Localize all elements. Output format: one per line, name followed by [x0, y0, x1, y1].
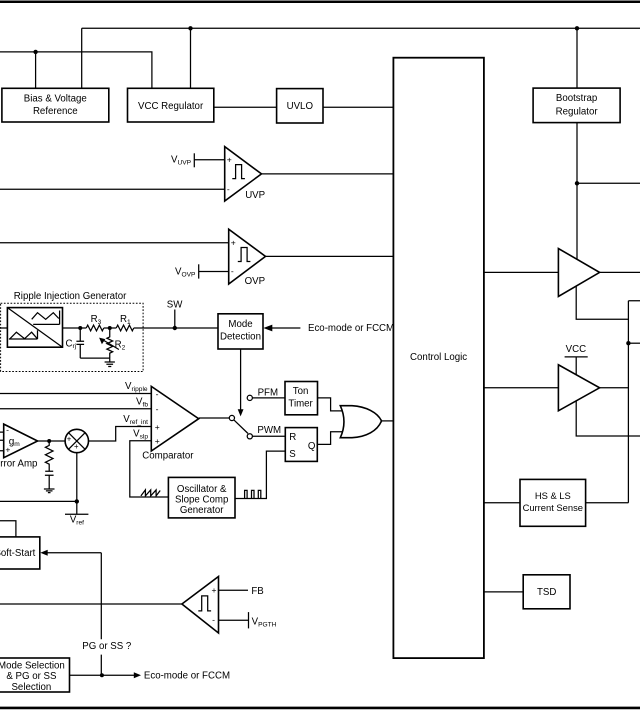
summing junction [65, 429, 88, 452]
svg-text:-: - [156, 389, 159, 399]
svg-text:FB: FB [251, 586, 263, 597]
switch contact PWM [247, 425, 281, 439]
wire soft-start input from left edge [0, 521, 16, 537]
svg-text:Control Logic: Control Logic [410, 352, 467, 363]
wire LS driver return [576, 401, 640, 436]
wire control logic to current sense [484, 502, 520, 504]
svg-text:+: + [155, 436, 160, 446]
wire error amp output to summing node [38, 440, 65, 442]
wire OVP plus input from left edge [0, 242, 229, 244]
svg-text:+: + [67, 434, 72, 443]
wire OVP output to control logic [266, 255, 394, 257]
wire input to ripple block from left edge [0, 327, 7, 329]
node junction Vref net [75, 499, 79, 503]
label VUVP [171, 155, 192, 167]
wire mode selection output to Eco-mode arrow [70, 671, 231, 682]
block TSD [523, 575, 570, 609]
reference Vref bar [65, 514, 88, 526]
svg-text:Regulator: Regulator [556, 106, 599, 117]
wire comparator output to switch pivot [199, 417, 230, 419]
svg-text:PG or SS ?: PG or SS ? [82, 641, 132, 652]
node junction Crj-R3 [78, 326, 82, 330]
svg-text:Eco-mode or FCCM: Eco-mode or FCCM [144, 671, 230, 682]
wire error amp input stubs from left edge [0, 432, 4, 451]
wire Vslp from oscillator to comparator [130, 441, 169, 497]
resistor compensation [45, 441, 53, 471]
wire bootstrap regulator to HS driver supply [576, 123, 578, 260]
wire Eco-mode input with arrow into mode detection [263, 323, 394, 334]
capacitor Crj [66, 328, 85, 358]
latch U2 RS flip-flop [285, 428, 317, 462]
wire UVP minus input from left edge [0, 188, 225, 190]
wire R1 to SW and mode detection [134, 327, 218, 329]
node junction PG-SS and eco net [100, 673, 104, 677]
label Ripple Injection Generator [14, 291, 127, 302]
resistor R1 [116, 314, 134, 331]
top border [0, 0, 640, 3]
wire Ton timer output to OR gate [318, 398, 343, 411]
buffer HS gate driver [558, 249, 599, 297]
wire summing node to Vref [76, 453, 78, 515]
wire control logic to HS driver input [484, 271, 559, 273]
comparator UVP [225, 147, 265, 201]
label PG or SS ? [82, 641, 132, 652]
label VOVP [175, 266, 196, 278]
node junction R3-R2-R1 [108, 326, 112, 330]
svg-text:Selection: Selection [11, 682, 51, 693]
comparator main PWM comparator [142, 386, 198, 461]
svg-text:Ripple Injection Generator: Ripple Injection Generator [14, 291, 127, 302]
wire HO output to right edge [600, 271, 640, 273]
wire current sense to bus [586, 502, 629, 504]
op-amp Error Amp gm [0, 424, 38, 469]
wire UVLO to control logic [323, 106, 393, 108]
svg-text:+: + [74, 442, 79, 451]
wire OR gate output to control logic [382, 420, 394, 422]
block VCC Regulator [128, 88, 214, 122]
wire PG comparator output to left edge [0, 603, 182, 605]
ground compensation [44, 489, 55, 493]
wire R3 to R1 [104, 327, 117, 329]
node junction bootstrap HB [575, 181, 579, 185]
source tick VPGTH [248, 612, 250, 628]
svg-text:-: - [6, 425, 9, 435]
svg-text:Comparator: Comparator [142, 450, 194, 461]
wire VPGTH to PG comparator minus [219, 619, 249, 621]
wire latch Q output to OR gate [317, 432, 343, 445]
svg-text:SW: SW [167, 300, 183, 311]
block UVLO [277, 89, 323, 123]
wire VOVP to OVP minus input [199, 271, 229, 273]
bottom border [0, 707, 640, 710]
svg-text:Soft-Start: Soft-Start [0, 548, 36, 559]
svg-text:Detection: Detection [220, 331, 261, 342]
wire VUVP to UVP plus input [194, 159, 224, 161]
comparator PG (left facing) [182, 577, 219, 634]
block Mode Detection [218, 314, 263, 349]
svg-text:-: - [212, 615, 215, 625]
label Vripple [125, 381, 148, 393]
svg-text:-: - [156, 404, 159, 414]
svg-text:-: - [227, 184, 230, 194]
svg-text:PWM: PWM [257, 425, 281, 436]
node junction VIN-VCCreg [188, 26, 192, 30]
wire Vref net to left edge [0, 500, 77, 502]
block Control Logic U1 [393, 58, 484, 658]
svg-text:VCC: VCC [566, 344, 586, 355]
svg-text:Ton: Ton [293, 386, 309, 397]
wire Vripple input from left edge [0, 393, 151, 395]
svg-text:Error Amp: Error Amp [0, 459, 37, 470]
wire FB input to PG comparator plus [219, 586, 264, 597]
node junction SW [173, 326, 177, 330]
wire ripple block output [63, 327, 87, 329]
resistor R2 variable [99, 328, 126, 358]
block Bootstrap Regulator [533, 88, 620, 123]
block Bias & Voltage Reference [2, 88, 109, 122]
svg-text:-: - [231, 266, 234, 276]
wire PG-SS select to soft-start with arrow [40, 550, 101, 556]
wire PG-SS vertical net [100, 553, 102, 676]
svg-text:Current Sense: Current Sense [523, 502, 583, 513]
block Oscillator and Slope Comp Generator [168, 477, 235, 518]
svg-text:VCC Regulator: VCC Regulator [138, 101, 204, 112]
svg-text:PFM: PFM [258, 387, 278, 398]
wire oscillator pulse output to latch S input [235, 451, 285, 498]
svg-text:Mode: Mode [228, 319, 252, 330]
svg-text:UVLO: UVLO [287, 101, 314, 112]
switch pivot circle [229, 415, 234, 420]
svg-text:S: S [289, 449, 296, 460]
label VPGTH [252, 616, 277, 628]
wire Vref_int from summing node to comparator [89, 427, 152, 442]
supply VCC at LS driver [565, 344, 588, 376]
switch lever toward PWM [234, 420, 248, 434]
node junction bus stub [626, 341, 630, 345]
resistor R3 [86, 314, 103, 331]
svg-text:Slope Comp: Slope Comp [175, 494, 228, 505]
label Vfb [136, 396, 148, 408]
source tick VUVP [193, 153, 195, 167]
wire UVP output to control logic [262, 173, 394, 175]
wire control logic to TSD [484, 591, 523, 593]
svg-text:+: + [227, 155, 232, 165]
gate OR1 [340, 406, 381, 438]
buffer LS gate driver [558, 365, 599, 411]
switch contact PFM [247, 387, 278, 400]
wire Vfb input from left edge [0, 408, 151, 410]
svg-text:Reference: Reference [33, 106, 78, 117]
svg-text:Bias & Voltage: Bias & Voltage [24, 93, 87, 104]
wire LS driver output to bus [600, 387, 629, 389]
wire control logic to LS driver input [484, 387, 559, 389]
wire VCCregulator to UVLO [214, 106, 277, 108]
svg-text:R: R [289, 432, 296, 443]
block HS & LS Current Sense [520, 479, 586, 526]
block Mode Selection and PG or SS Selection [0, 658, 69, 693]
svg-text:Q: Q [308, 441, 316, 452]
svg-text:+: + [155, 422, 160, 432]
pin stub SW [167, 300, 183, 328]
svg-text:+: + [211, 585, 216, 595]
wire HS driver return [576, 286, 628, 319]
node junction rail2-bias [33, 50, 37, 54]
svg-text:+: + [231, 238, 236, 248]
svg-text:UVP: UVP [245, 190, 265, 201]
svg-text:Mode Selection: Mode Selection [0, 661, 65, 672]
comparator OVP [229, 229, 266, 287]
svg-text:Timer: Timer [288, 398, 313, 409]
svg-text:& PG or SS: & PG or SS [6, 671, 57, 682]
block Soft-Start [0, 537, 40, 569]
node junction VIN-bootstrap [575, 26, 579, 30]
svg-text:HS & LS: HS & LS [535, 490, 571, 501]
wire mode detection to mode switch arrow [238, 349, 244, 416]
wire PWM contact to latch R input [252, 435, 285, 437]
svg-text:TSD: TSD [537, 587, 556, 598]
svg-text:Generator: Generator [180, 505, 224, 516]
dashed boundary ripple injection generator [1, 303, 144, 371]
block Ton Timer [285, 382, 318, 415]
label Vref_int [123, 414, 148, 426]
capacitor compensation [45, 471, 54, 488]
node junction compensation tap [47, 439, 51, 443]
svg-text:Oscillator &: Oscillator & [177, 484, 227, 495]
wire switch-node bus [628, 301, 640, 503]
svg-text:Eco-mode or FCCM: Eco-mode or FCCM [308, 323, 394, 334]
ground below R2 [105, 358, 115, 366]
wire second supply rail [0, 52, 152, 88]
wire Crj bottom to R2 bottom [80, 357, 110, 359]
wire bus stub to right edge [628, 342, 640, 344]
sawtooth waveform glyph [141, 490, 160, 496]
ripple waveform converter block [7, 308, 62, 348]
svg-text:Bootstrap: Bootstrap [556, 93, 597, 104]
wire PFM contact to Ton timer [252, 397, 285, 399]
wire VIN top rail [82, 28, 640, 88]
label Vslp [133, 429, 148, 441]
svg-text:OVP: OVP [245, 276, 265, 287]
source tick VOVP [198, 264, 200, 278]
wire HB pin to right edge [577, 182, 640, 184]
pulse waveform glyph [245, 490, 261, 498]
